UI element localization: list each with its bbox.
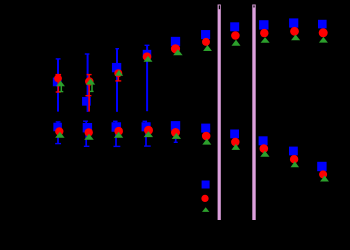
red circle bot5 (171, 128, 180, 137)
green triangle bot10 (320, 176, 329, 182)
red circle top4 (143, 52, 152, 61)
pink vertical line 2 (252, 5, 255, 221)
blue square top4 (143, 50, 152, 59)
blue square top2 (low outlier) (82, 97, 91, 106)
red circle top7 (231, 31, 240, 40)
green triangle top9 (291, 35, 300, 41)
blue square bot5 (171, 121, 180, 130)
green triangle bot2 (84, 134, 94, 140)
red circle top1 (54, 75, 62, 83)
blue square bot3 (112, 122, 122, 132)
blue square top3 (112, 63, 121, 72)
green triangle bot6 (202, 139, 211, 145)
blue square bot6 (201, 124, 210, 133)
blue error bar col4 top (145, 45, 150, 112)
green triangle bot5 (172, 133, 181, 139)
red circle bot8 (260, 144, 269, 153)
red error bar col1 top (56, 74, 62, 93)
red error bar col3 top (115, 73, 121, 81)
blue square top10 (318, 20, 327, 29)
red circle top6 (202, 38, 210, 46)
blue error bar col5 bot (174, 139, 178, 143)
green triangle top1 (56, 81, 65, 87)
red circle bot10 (319, 170, 327, 178)
red circle bot3 (114, 127, 123, 136)
red circle bot4 (144, 126, 153, 135)
green error bar col1 top (59, 85, 63, 92)
legend blue square (202, 181, 210, 189)
green triangle bot3 (114, 132, 123, 138)
green triangle top7 (232, 40, 241, 46)
red circle top5 (171, 44, 180, 53)
green triangle top2 (86, 78, 96, 84)
green triangle top6 (203, 45, 212, 51)
blue square bot1 (53, 123, 62, 132)
blue error bar col1 bot (55, 121, 61, 144)
green triangle bot7 (232, 144, 241, 150)
blue square top7 (230, 22, 239, 31)
red circle bot7 (231, 138, 240, 147)
green triangle top3 (115, 70, 123, 76)
pink line 1 dark notch (219, 5, 220, 9)
blue square bot4 (142, 122, 151, 131)
blue square top8 (259, 20, 268, 29)
blue square bot10 (317, 162, 326, 171)
red circle top8 (260, 29, 268, 37)
legend green triangle (202, 207, 209, 212)
blue square top6 (201, 30, 210, 39)
green error bar col2 top (90, 85, 94, 93)
red circle bot9 (290, 155, 298, 163)
red circle top9 (290, 27, 299, 36)
blue square top5 (171, 37, 180, 46)
blue square bot7 (230, 130, 239, 139)
blue square bot8 (259, 136, 268, 145)
blue square top1 (53, 78, 62, 87)
green triangle bot1 (55, 132, 65, 138)
blue error bar col2 top (85, 53, 90, 112)
blue square top9 (289, 18, 298, 27)
red error bar col2 top (85, 74, 91, 112)
legend red circle (201, 195, 208, 202)
blue error bar col3 top (115, 48, 119, 112)
blue error bar col4 bot (143, 121, 151, 147)
blue error bar col3 bot (113, 121, 120, 147)
blue error bar col1 top (56, 58, 61, 111)
red circle bot2 (85, 128, 93, 136)
red circle top2 (85, 77, 94, 86)
red circle top3 (114, 69, 122, 77)
red circle bot6 (202, 132, 211, 141)
blue error bar col2 bot (83, 121, 89, 148)
blue square bot9 (289, 147, 298, 156)
green triangle top8 (261, 37, 270, 43)
green triangle bot8 (260, 151, 269, 157)
green triangle bot9 (291, 161, 300, 167)
green triangle bot4 (144, 131, 153, 137)
green triangle top10 (319, 37, 328, 43)
pink vertical line 1 (218, 5, 221, 221)
green triangle top4 (144, 56, 153, 62)
red circle top10 (319, 28, 328, 37)
blue square bot2 (83, 123, 92, 132)
green triangle top5 (173, 49, 183, 55)
pink line 2 dark notch (253, 5, 254, 7)
red circle bot1 (55, 127, 63, 135)
